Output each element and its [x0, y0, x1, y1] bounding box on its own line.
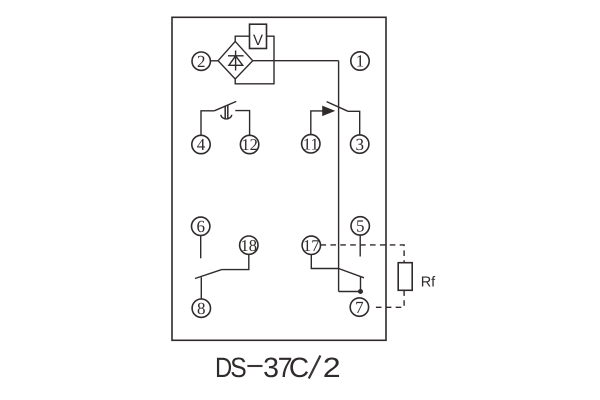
svg-text:C: C: [289, 352, 309, 383]
terminal 17: [302, 236, 320, 255]
wire terminal 12: [235, 111, 249, 136]
terminal 7: [350, 298, 368, 317]
svg-text:7: 7: [355, 298, 364, 317]
bridge rectifier: [218, 41, 253, 79]
svg-text:18: 18: [241, 236, 258, 255]
terminal 11: [302, 135, 320, 154]
wire terminal 8 up: [200, 277, 202, 299]
wire terminal 11 with arrowhead: [311, 107, 334, 135]
contact blade 4-12: [214, 101, 236, 110]
terminal 12: [240, 135, 258, 154]
latching indicator arc: [221, 115, 232, 119]
wire voltmeter to bridge bottom: [235, 36, 274, 84]
svg-text:Rf: Rf: [421, 275, 436, 291]
terminal 8: [192, 299, 210, 318]
terminal 18: [240, 236, 258, 255]
wire to terminal 18: [222, 254, 249, 269]
svg-text:4: 4: [197, 135, 206, 154]
diode inside bridge: [228, 51, 244, 71]
wire terminal 17 to pivot: [311, 255, 338, 269]
svg-text:11: 11: [303, 135, 319, 154]
terminal 3: [351, 135, 369, 154]
svg-text:17: 17: [303, 236, 320, 255]
contact blade 11-3: [327, 102, 348, 112]
svg-text:2: 2: [197, 52, 206, 71]
bottom horizontal wire: [339, 291, 361, 293]
dashed link terminal 17 to Rf: [321, 245, 405, 263]
svg-text:5: 5: [356, 217, 365, 236]
contact blade 8-18: [195, 270, 222, 279]
terminal 2: [192, 52, 210, 71]
dashed link Rf to terminal 7: [374, 290, 404, 307]
svg-text:V: V: [253, 32, 263, 49]
svg-text:12: 12: [241, 135, 258, 154]
voltmeter V: [250, 24, 267, 49]
contact drop wire: [360, 277, 362, 292]
terminal 4: [192, 135, 210, 154]
main vertical wire: [338, 61, 340, 292]
relay case outline: [172, 17, 386, 340]
svg-text:8: 8: [197, 299, 206, 318]
terminal 1: [351, 52, 369, 71]
caption DS-37C/2: [215, 352, 341, 383]
wire terminal 4 up: [201, 111, 214, 136]
svg-text:2: 2: [323, 352, 341, 383]
svg-text:1: 1: [356, 52, 365, 71]
svg-text:3: 3: [355, 135, 364, 154]
wire to terminal 3: [348, 111, 360, 135]
svg-text:3: 3: [263, 352, 279, 383]
wire terminal 6 stub: [200, 236, 202, 259]
contact blade 17: [339, 269, 364, 278]
terminal 6: [192, 217, 210, 236]
terminal 5: [351, 217, 369, 236]
wire terminal 2 to bridge: [210, 60, 218, 62]
svg-text:S: S: [230, 352, 246, 383]
latching indicator bars: [225, 105, 228, 118]
resistor Rf: [398, 263, 412, 291]
wire bridge output to corner node: [253, 60, 339, 62]
wire bridge top to voltmeter: [235, 36, 249, 41]
junction dot: [358, 289, 363, 294]
svg-text:6: 6: [196, 217, 205, 236]
wire terminal 5 stub: [359, 235, 361, 256]
